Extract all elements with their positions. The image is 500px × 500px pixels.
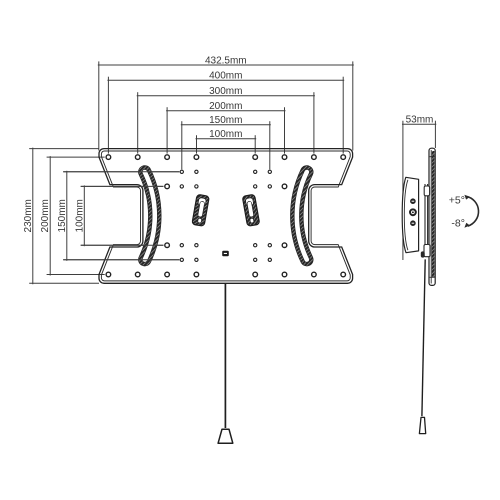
front pull cord (224, 284, 226, 429)
tilt angle arc arrow (466, 196, 479, 226)
bolt middle (409, 208, 417, 216)
side plate seam lines (430, 156, 435, 158)
dimension 100mm horizontal (196, 135, 257, 153)
right hook slot (242, 194, 259, 226)
wall bracket inner line (404, 180, 408, 250)
svg-text:150mm: 150mm (57, 199, 68, 232)
mounting plate inner offset line (101, 151, 350, 281)
svg-text:53mm: 53mm (406, 115, 434, 126)
bolt top (410, 198, 416, 204)
svg-text:200mm: 200mm (209, 101, 242, 112)
dimension 432.5mm horizontal (98, 61, 354, 150)
left curved slot (145, 172, 155, 260)
svg-text:100mm: 100mm (209, 129, 242, 140)
svg-text:230mm: 230mm (23, 199, 34, 232)
mounting holes small (180, 170, 271, 261)
side cord tassel (419, 417, 425, 433)
mounting plate outer outline (99, 149, 353, 284)
dimension 53mm (402, 121, 436, 260)
side pull cord (422, 259, 425, 416)
svg-text:100mm: 100mm (74, 199, 85, 232)
extension lines over slots (63, 172, 179, 260)
svg-text:200mm: 200mm (40, 199, 51, 232)
svg-text:150mm: 150mm (209, 115, 242, 126)
left hook slot (192, 194, 209, 226)
center lock tab (222, 251, 229, 256)
side bottom clip (424, 245, 430, 257)
dimension 200mm horizontal (166, 107, 285, 153)
side plate bar (429, 148, 435, 285)
dimension 300mm horizontal (137, 92, 315, 153)
bolt bottom (410, 220, 416, 226)
side plate dark core (432, 151, 435, 277)
dimension 100mm vertical (81, 185, 164, 246)
dimension 230mm vertical (29, 148, 99, 285)
svg-text:300mm: 300mm (209, 86, 242, 97)
side rail channel (424, 184, 426, 257)
front cord tassel (218, 429, 233, 443)
dimension 150mm horizontal (181, 121, 271, 169)
right curved slot (297, 172, 307, 260)
dimension 400mm horizontal (107, 77, 344, 154)
svg-text:-8°: -8° (451, 218, 465, 230)
svg-text:432.5mm: 432.5mm (205, 55, 247, 66)
dimension 150mm vertical (63, 171, 179, 261)
side top clip (424, 186, 429, 196)
side bottom knob (421, 251, 425, 257)
wall bracket profile (402, 177, 418, 252)
svg-text:400mm: 400mm (209, 71, 242, 82)
mounting plate white fill (99, 149, 353, 284)
dimension 200mm vertical (47, 156, 105, 275)
mounting holes large (106, 155, 345, 277)
svg-text:+5°: +5° (449, 194, 465, 206)
